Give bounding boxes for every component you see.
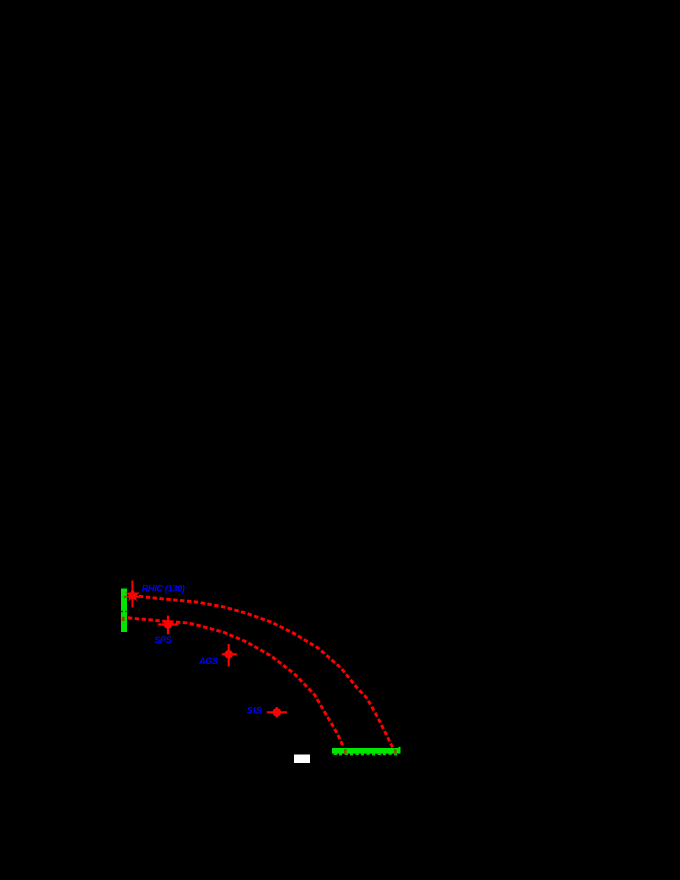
SIS point error bars [267,707,287,718]
svg-text:SPS: SPS [154,635,171,645]
nuclear matter green horizontal bar [332,747,401,756]
RHIC star marker [127,589,139,600]
white legend rectangle [294,755,310,764]
brown overlap of star arm on vertical bar [124,596,127,598]
RHIC star error bars [126,581,141,608]
AGS point error bars [222,644,237,667]
SIS marker [273,708,282,717]
lattice Tc green vertical bar [121,589,127,633]
brown overlap of lower curve on vertical bar [122,617,125,621]
svg-text:RHIC (130): RHIC (130) [142,583,185,593]
lower freeze-out dashed curve [121,617,344,747]
svg-text:AGS: AGS [198,656,218,666]
SPS marker [164,620,173,629]
dark speckles on vertical bar [121,611,123,612]
SPS point error bars [158,616,179,635]
AGS marker [224,650,233,659]
svg-text:SIS: SIS [247,706,262,716]
upper phase-boundary dashed curve [132,596,393,748]
brown overlaps of curves on horizontal bar [344,749,347,754]
